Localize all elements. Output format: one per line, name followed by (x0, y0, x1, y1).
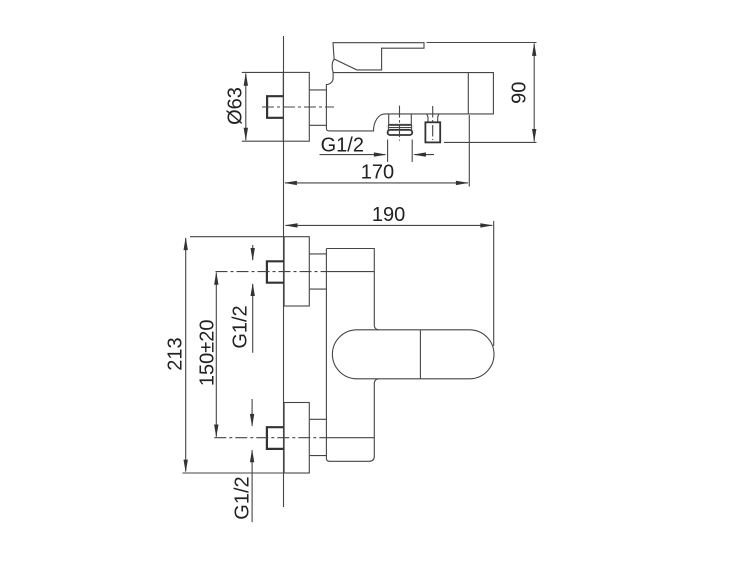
arrow G1/2 side right (413, 152, 426, 156)
body seam line bottom (326, 437, 374, 439)
connector front view bottom (309, 418, 326, 420)
inlet nipple G1/2 side view (267, 96, 283, 118)
dimension 213 extension bottom (182, 472, 308, 474)
center line top nipple (216, 271, 327, 273)
svg-text:213: 213 (165, 337, 187, 370)
dimension Ø63 extension top (242, 71, 283, 73)
dimension 213 line (185, 238, 187, 472)
spout center line (399, 106, 401, 141)
dimension 190 right extension (493, 221, 495, 346)
arrow 150 top (214, 272, 218, 285)
dimension G1/2 side view lines (320, 154, 386, 156)
dimension G1/2 side view extension lines (387, 140, 389, 163)
faucet body front view (326, 249, 378, 462)
svg-text:G1/2: G1/2 (230, 305, 252, 348)
dimension G1/2 bottom front view line (251, 399, 253, 426)
dimension 170 line (285, 182, 468, 184)
handle pill divider (419, 330, 421, 379)
arrow 213 bottom (184, 460, 188, 473)
arrow 170 left (284, 181, 297, 185)
nipple front view bottom (267, 427, 284, 449)
arrow G1/2 top-dim down (251, 248, 255, 261)
svg-text:90: 90 (508, 82, 530, 104)
faucet body side view (326, 73, 493, 131)
shower outlet check valve body (425, 122, 440, 142)
dimension G1/2 top front view line (252, 245, 254, 260)
svg-text:150±20: 150±20 (196, 320, 218, 387)
dimension Ø63 extension bottom (242, 140, 283, 142)
dimension 213 extension top (190, 236, 284, 238)
dimension 150±20 line (215, 273, 217, 437)
wall line (283, 36, 285, 507)
arrow G1/2 bot-dim down (250, 414, 254, 427)
shower outlet neck side view (427, 114, 428, 122)
svg-text:190: 190 (372, 204, 405, 226)
arrow Ø63 top (244, 73, 248, 86)
svg-text:Ø63: Ø63 (224, 87, 246, 125)
body seam line top (326, 271, 374, 273)
escutcheon front view bottom (284, 403, 309, 474)
arrow 170 right (456, 181, 469, 185)
arrow G1/2 bot-dim up (250, 449, 254, 462)
dimension 170 right extension (468, 115, 470, 187)
arrow 90 bottom (532, 129, 536, 142)
arrow G1/2 top-dim up (251, 283, 255, 296)
escutcheon side view (283, 72, 309, 141)
escutcheon front view top (284, 237, 309, 306)
shower outlet center line (432, 106, 434, 140)
spout outlet side view (388, 114, 390, 125)
arrow 150 bottom (214, 425, 218, 438)
arrow 190 right (480, 223, 493, 227)
dimension Ø63 line (245, 74, 247, 141)
arrow G1/2 side left (374, 152, 387, 156)
svg-text:G1/2: G1/2 (232, 476, 254, 519)
body end-cap joint line (467, 73, 469, 114)
center line inlet side view (262, 106, 334, 108)
handle lever side view (333, 43, 424, 70)
dimension 190 line (286, 224, 493, 226)
connector block side view (309, 89, 326, 91)
dimension 90 line (533, 44, 535, 142)
arrow 90 top (532, 43, 536, 56)
center line bottom nipple (214, 437, 326, 439)
arrow 213 top (184, 237, 188, 250)
spout aerator capsule (388, 130, 413, 135)
svg-text:170: 170 (361, 162, 394, 184)
dimension 90 extension lines (427, 42, 537, 44)
cartridge dome arc (332, 59, 334, 72)
connector front view top (309, 253, 326, 255)
nipple front view top (267, 261, 284, 282)
arrow Ø63 bottom (244, 128, 248, 141)
arrow 190 left (285, 223, 298, 227)
handle pill front view (332, 330, 494, 379)
svg-text:G1/2: G1/2 (321, 135, 364, 157)
